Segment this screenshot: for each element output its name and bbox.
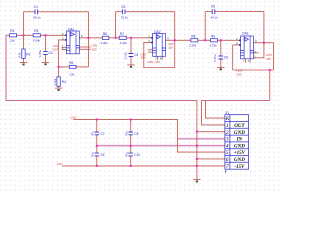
wire connector GND vertical — [196, 100, 198, 179]
ground tick (connector GND) — [196, 181, 198, 183]
wire stage2 feedback top — [115, 12, 117, 38]
svg-text:+15V: +15V — [69, 116, 77, 120]
node OUT3 (DA3 output junction) — [263, 42, 265, 44]
pin square DA1 pin 2 — [65, 35, 67, 37]
resistor R6 — [102, 36, 108, 39]
node OUT2 (DA2 output junction) — [174, 39, 176, 41]
node B1 (C2 shunt junction) — [45, 34, 47, 36]
op-amp U DA2 — [153, 34, 166, 57]
node B3 (C6 shunt junction) — [220, 39, 222, 41]
ground symbols — [20, 62, 225, 179]
svg-text:C7: C7 — [100, 132, 104, 136]
svg-text:47u: 47u — [124, 152, 128, 157]
capacitor C7 — [95, 132, 99, 135]
ground tick (C6) — [220, 68, 222, 70]
node +15V rail / C7 junction — [96, 118, 98, 120]
wire stage3 feedback top — [204, 12, 206, 41]
svg-text:DA1: DA1 — [68, 27, 74, 31]
node GND vertical / GND rail junction — [196, 145, 198, 147]
svg-text:-15V: -15V — [236, 72, 242, 76]
ground (C2) — [42, 61, 49, 63]
wire OUT to pin1 — [202, 100, 225, 125]
ground tick (C4) — [130, 66, 132, 68]
svg-text:-15V: -15V — [91, 47, 97, 51]
resistor R7 — [119, 36, 126, 39]
svg-text:5: 5 — [226, 150, 229, 156]
wire stage3 C6 branch — [220, 40, 222, 56]
svg-text:R9: R9 — [211, 35, 215, 39]
svg-text:2: 2 — [226, 130, 229, 136]
wire stage3 signal path — [198, 39, 211, 41]
svg-text:6.34k: 6.34k — [33, 39, 41, 43]
node A2 (R6/R7/feedback junction) — [115, 37, 117, 39]
resistor R2 — [22, 49, 25, 58]
node loop3 tap junction — [269, 69, 271, 71]
svg-text:R8: R8 — [191, 35, 195, 39]
op-amp U DA1 — [66, 31, 79, 54]
svg-text:47u: 47u — [124, 131, 128, 136]
svg-text:R1: R1 — [10, 29, 14, 33]
wire DA3 power stubs — [244, 59, 246, 63]
svg-text:0.15u: 0.15u — [38, 50, 42, 58]
svg-text:2.26k: 2.26k — [189, 43, 197, 47]
svg-text:+15V -15V: +15V -15V — [147, 60, 161, 64]
node -15V rail / C9 junction — [96, 165, 98, 167]
pin square DA3 pin 2 — [239, 40, 241, 42]
capacitor C9 — [95, 153, 99, 156]
wire stage2 C4 branch — [130, 38, 132, 54]
node GND rail / C7-C9 junction — [96, 145, 98, 147]
svg-text:GND: GND — [234, 144, 245, 149]
node B2 (C4 shunt junction) — [130, 37, 132, 39]
svg-text:GND: GND — [234, 131, 245, 136]
wire stage3 output loop — [253, 43, 273, 70]
svg-text:94.1n: 94.1n — [211, 15, 219, 19]
svg-text:-15V: -15V — [234, 165, 245, 170]
connector X1 — [225, 115, 249, 170]
svg-text:+15V: +15V — [234, 151, 246, 156]
svg-text:4.22k: 4.22k — [210, 43, 218, 47]
wire DA1 power stubs — [62, 46, 67, 48]
svg-text:47u: 47u — [90, 131, 94, 136]
resistor R5 — [69, 65, 76, 68]
svg-text:C6: C6 — [224, 56, 228, 60]
svg-text:C8: C8 — [134, 132, 138, 136]
ground (C4) — [127, 64, 134, 66]
svg-text:2.26k: 2.26k — [101, 41, 109, 45]
svg-text:R2: R2 — [26, 52, 30, 56]
node FB1 (R4/R5 junction) — [58, 66, 60, 68]
svg-text:1: 1 — [226, 123, 229, 129]
svg-text:C5: C5 — [211, 5, 215, 9]
capacitor C5 — [212, 9, 215, 14]
capacitor C8 — [129, 132, 133, 135]
svg-text:1.5k: 1.5k — [9, 39, 15, 43]
ground tick (R2) — [22, 64, 24, 66]
node GND vertical / pin2 junction — [196, 131, 198, 133]
wire stage1 feedback top — [23, 12, 25, 36]
wire stage1 output — [79, 37, 102, 39]
wire power cap column 2 — [130, 119, 132, 132]
svg-text:8.2k: 8.2k — [18, 52, 22, 58]
capacitor C6 — [219, 56, 224, 59]
pin square DA2 pin 2 — [151, 37, 153, 39]
node GND rail / C8-C10 junction — [130, 145, 132, 147]
wire IN net to pin3 and GND rail to pin4 (pink) — [97, 139, 225, 146]
resistors — [9, 34, 217, 87]
svg-text:33.2n: 33.2n — [121, 16, 129, 20]
capacitor C2 — [43, 52, 48, 55]
wire power cap column 1 — [96, 119, 98, 132]
node +15V rail / C8 junction — [130, 118, 132, 120]
capacitor C1 — [35, 9, 38, 14]
label mark below connector — [225, 170, 226, 172]
svg-text:-15V: -15V — [167, 45, 173, 49]
svg-text:47u: 47u — [90, 152, 94, 157]
wire K row — [206, 100, 225, 118]
svg-text:1.5k: 1.5k — [69, 73, 75, 77]
pin square DA1 pin 3 — [65, 39, 67, 41]
ground (R4) — [55, 87, 62, 89]
wire stage2 pin3 loop — [144, 42, 175, 67]
ground (R2) — [20, 62, 27, 64]
node OUT1 (DA1 output junction) — [88, 37, 90, 39]
svg-text:R6: R6 — [103, 32, 107, 36]
svg-text:C9: C9 — [100, 153, 104, 157]
svg-text:DA2: DA2 — [154, 30, 160, 34]
capacitor C3 — [122, 9, 125, 14]
wire stage2 signal path — [109, 37, 119, 39]
wire stage1 R2 branch — [23, 35, 25, 49]
svg-text:C3: C3 — [121, 5, 125, 9]
wire -15V rail — [62, 165, 225, 167]
wire +15V rail to pin5 — [73, 119, 225, 152]
svg-text:0.15u: 0.15u — [123, 52, 127, 60]
ground tick (R4) — [58, 89, 60, 91]
resistor R1 — [9, 34, 16, 37]
wire stage1 signal path — [6, 12, 274, 180]
resistor R9 — [211, 39, 218, 42]
svg-text:X1: X1 — [225, 111, 229, 115]
svg-text:-15V: -15V — [140, 55, 146, 59]
svg-text:OUT: OUT — [234, 124, 245, 129]
ground (connector GND) — [193, 179, 200, 181]
node GND vertical / pin6 junction — [196, 158, 198, 160]
svg-text:R7: R7 — [120, 32, 124, 36]
svg-text:DA3: DA3 — [242, 32, 248, 36]
capacitor C10 — [129, 153, 133, 156]
svg-text:C4: C4 — [134, 53, 138, 57]
node A3 (R8/R9/feedback junction) — [204, 39, 206, 41]
svg-text:C2: C2 — [48, 51, 52, 55]
svg-text:C10: C10 — [134, 153, 140, 157]
wire stage1 pin3 / gain network — [59, 40, 70, 67]
wire stage1 C2 branch — [45, 35, 47, 51]
ground tick (C2) — [44, 63, 46, 65]
wire stage2 output — [166, 39, 191, 41]
resistor R3 — [33, 34, 40, 37]
svg-text:4.22k: 4.22k — [120, 41, 128, 45]
svg-text:IN: IN — [236, 138, 243, 143]
svg-text:6: 6 — [226, 157, 229, 163]
resistor R4 — [57, 77, 60, 86]
svg-text:R4: R4 — [62, 80, 66, 84]
capacitor C4 — [129, 54, 134, 57]
svg-text:-15V: -15V — [56, 162, 63, 166]
wire input bus: left vertical x=6 and long horizontal y=100 — [6, 35, 270, 100]
svg-text:C1: C1 — [34, 5, 38, 9]
svg-text:3.16k: 3.16k — [53, 78, 57, 86]
svg-text:-15V: -15V — [52, 48, 58, 52]
resistor R8 — [191, 39, 198, 42]
pin square DA2 pin 3 — [151, 42, 153, 44]
node A1 (R1/R3/feedback junction) — [23, 34, 25, 36]
svg-text:GND: GND — [234, 158, 245, 163]
node -15V rail / C10 junction — [130, 165, 132, 167]
svg-text:R5: R5 — [69, 61, 73, 65]
wire DA2 power stubs — [157, 56, 159, 60]
ground (C6) — [217, 66, 224, 68]
capacitors plates — [35, 9, 223, 156]
svg-text:-15V: -15V — [265, 57, 271, 61]
node GND vertical / -15V rail junction — [196, 165, 198, 167]
pin square DA3 pin 3 — [239, 44, 241, 46]
svg-text:R3: R3 — [34, 29, 38, 33]
svg-text:68.1n: 68.1n — [33, 16, 41, 20]
svg-text:0.15u: 0.15u — [213, 54, 217, 62]
wire IN net and GND rail halo — [97, 139, 225, 146]
svg-text:3: 3 — [225, 137, 229, 143]
svg-text:4: 4 — [226, 143, 229, 149]
op-amp U DA3 — [241, 36, 254, 59]
